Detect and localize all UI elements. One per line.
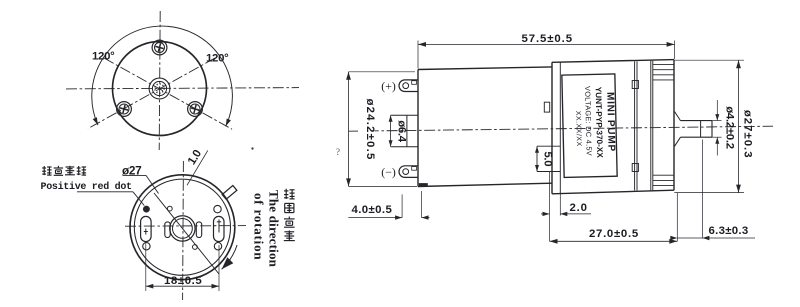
svg-text:27.0±0.5: 27.0±0.5 (589, 228, 639, 240)
svg-text:ø27±0.3: ø27±0.3 (742, 110, 754, 159)
svg-text:ø6.4: ø6.4 (395, 120, 407, 143)
svg-text:The direction: The direction (267, 190, 282, 268)
svg-text:(+): (+) (381, 79, 396, 93)
svg-text:ø4.2±0.2: ø4.2±0.2 (723, 106, 735, 148)
svg-text:ø24.2±0.5: ø24.2±0.5 (364, 98, 376, 160)
svg-text:120°: 120° (92, 51, 115, 63)
svg-text:?: ? (336, 147, 340, 157)
svg-text:XX.XX/XX: XX.XX/XX (574, 111, 582, 147)
svg-text:18±0.5: 18±0.5 (164, 275, 202, 287)
svg-text:(−): (−) (381, 165, 396, 179)
svg-text:MINI PUMP: MINI PUMP (604, 92, 616, 152)
svg-text:YUNT-PYP-370-XX: YUNT-PYP-370-XX (594, 87, 605, 159)
svg-text:Positive red dot: Positive red dot (41, 181, 133, 193)
svg-text:57.5±0.5: 57.5±0.5 (522, 33, 573, 45)
svg-text:of rotation: of rotation (252, 193, 267, 260)
svg-text:5.0: 5.0 (542, 151, 554, 166)
svg-text:4.0±0.5: 4.0±0.5 (352, 204, 393, 216)
svg-text:120°: 120° (206, 53, 229, 65)
svg-text:VOLTAGE: DC 4.5V: VOLTAGE: DC 4.5V (583, 86, 594, 156)
svg-text:2.0: 2.0 (570, 202, 588, 214)
svg-text:6.3±0.3: 6.3±0.3 (709, 225, 749, 237)
